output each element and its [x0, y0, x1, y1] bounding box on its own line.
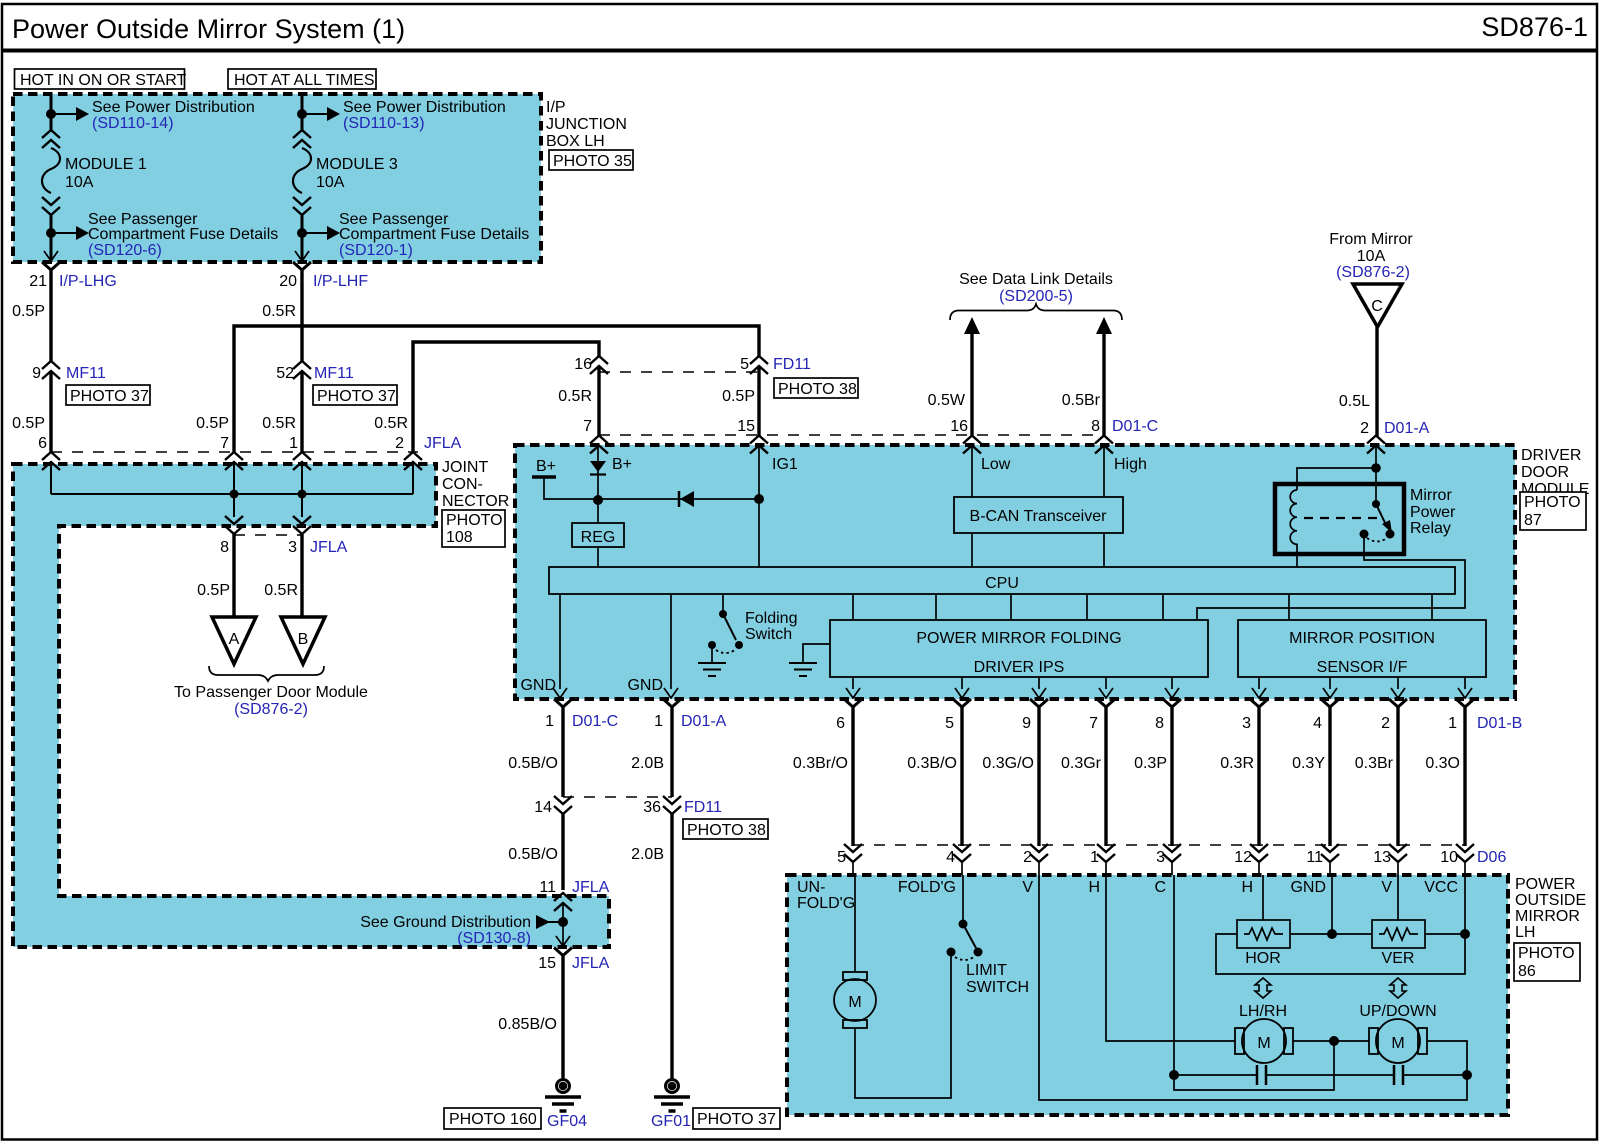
wire VCC sensor — [1464, 875, 1466, 934]
wire B+ node to IG1 node with diode — [598, 498, 759, 500]
arrowheads folding driver outputs — [846, 688, 860, 698]
svg-text:36: 36 — [643, 799, 661, 816]
svg-text:B+: B+ — [536, 458, 556, 475]
label box PHOTO 37 (left) — [66, 385, 150, 405]
text See Power Distribution (SD110-13) — [343, 99, 506, 132]
svg-text:HOT IN ON OR START: HOT IN ON OR START — [20, 72, 186, 89]
connector face line D01-C — [599, 434, 1104, 436]
connector D06 pin 11 — [1306, 844, 1339, 866]
connector D06 pin 4 — [946, 844, 971, 866]
junction node at MODULE 1 top — [46, 109, 56, 119]
connector JFLA pin 8 — [220, 516, 243, 556]
svg-text:D06: D06 — [1477, 849, 1506, 866]
svg-text:1: 1 — [1448, 715, 1457, 732]
svg-text:9: 9 — [1022, 715, 1031, 732]
wire 0.85B/O JFLA 15 to GF04 — [498, 955, 563, 1078]
svg-text:3: 3 — [288, 539, 297, 556]
svg-text:0.3Br: 0.3Br — [1355, 755, 1394, 772]
wire IG1 — [759, 446, 798, 567]
power outside mirror LH block — [787, 875, 1508, 1115]
svg-text:GF01: GF01 — [651, 1113, 691, 1130]
wire JFLA 11 to ground bus — [562, 903, 564, 946]
svg-text:DRIVER: DRIVER — [1521, 447, 1581, 464]
svg-text:NECTOR: NECTOR — [442, 493, 509, 510]
svg-text:13: 13 — [1373, 849, 1391, 866]
wire GND node to HOR and VER — [1290, 933, 1465, 935]
connector D06 pin 3 — [1156, 844, 1181, 866]
text See Passenger Compartment Fuse Details (SD120-1) — [339, 211, 529, 259]
label DRIVER DOOR MODULE — [1521, 447, 1589, 498]
svg-text:0.5B/O: 0.5B/O — [508, 755, 558, 772]
svg-text:JFLA: JFLA — [310, 539, 348, 556]
connector face line FD11 — [599, 371, 759, 373]
wire GND 1 (D01-C) — [520, 594, 567, 698]
svg-text:D01-C: D01-C — [572, 713, 618, 730]
svg-text:VCC: VCC — [1424, 879, 1458, 896]
svg-text:Power: Power — [1410, 504, 1456, 521]
connector D06 pin 2 — [1023, 844, 1048, 866]
svg-text:C: C — [1154, 879, 1166, 896]
connector JFLA pin 1 — [293, 452, 311, 470]
wire 0.5R FD11 16 to D01-C 7 — [558, 366, 599, 436]
connector JFLA pin 7 — [225, 452, 243, 470]
wire 0.3R D01-B 3 to D06 12 — [1220, 707, 1259, 846]
label box PHOTO 38 — [774, 378, 858, 398]
text See Power Distribution (SD110-14) — [92, 99, 255, 132]
svg-text:10: 10 — [1440, 849, 1458, 866]
svg-text:Mirror: Mirror — [1410, 487, 1452, 504]
fold motor M1 — [834, 972, 876, 1028]
folding switch SW1 — [698, 594, 797, 676]
wire 0.3P D01-B 8 to D06 3 — [1134, 707, 1172, 846]
svg-text:2: 2 — [1381, 715, 1390, 732]
svg-text:3: 3 — [1242, 715, 1251, 732]
wire UP/DOWN to V node — [1427, 1041, 1467, 1075]
svg-text:1: 1 — [545, 713, 554, 730]
svg-text:UN-: UN- — [797, 879, 825, 896]
wire unfold to motor — [854, 875, 856, 972]
svg-text:UP/DOWN: UP/DOWN — [1359, 1003, 1436, 1020]
svg-text:(SD200-5): (SD200-5) — [999, 288, 1073, 305]
wire 0.5R JFLA 2 to FD11 16 — [374, 342, 599, 453]
svg-text:PHOTO 160: PHOTO 160 — [449, 1111, 537, 1128]
fuse MODULE 3 10A — [293, 130, 311, 215]
svg-text:7: 7 — [1089, 715, 1098, 732]
svg-text:HOT AT ALL TIMES: HOT AT ALL TIMES — [234, 72, 375, 89]
svg-text:2: 2 — [395, 435, 404, 452]
svg-text:(SD110-14): (SD110-14) — [92, 115, 174, 132]
svg-text:I/P-LHF: I/P-LHF — [313, 273, 368, 290]
svg-text:FOLD'G: FOLD'G — [898, 879, 956, 896]
svg-text:(SD876-2): (SD876-2) — [1336, 264, 1410, 281]
svg-text:B+: B+ — [612, 456, 632, 473]
wire GND 2 (D01-A) — [627, 594, 678, 698]
svg-text:SD876-1: SD876-1 — [1481, 12, 1588, 42]
svg-text:JUNCTION: JUNCTION — [546, 116, 627, 133]
svg-text:H: H — [1088, 879, 1100, 896]
svg-text:HOR: HOR — [1245, 950, 1281, 967]
svg-text:0.3Y: 0.3Y — [1292, 755, 1325, 772]
wire 0.5P JFLA 7 to FD11 5 — [196, 326, 759, 453]
svg-text:FD11: FD11 — [773, 356, 811, 373]
connector I/P-LHF pin 20 — [279, 251, 368, 290]
svg-text:M: M — [1391, 1035, 1404, 1052]
svg-text:0.5Br: 0.5Br — [1062, 392, 1101, 409]
svg-text:D01-A: D01-A — [681, 713, 727, 730]
svg-text:PHOTO: PHOTO — [1524, 494, 1581, 511]
svg-text:(SD130-8): (SD130-8) — [457, 930, 531, 947]
wire 0.5R from I/P-LHF 20 to MF11 52 — [262, 270, 302, 362]
junction node bus-pin3 — [298, 490, 307, 499]
arrowheads sensor interface outputs — [1252, 688, 1266, 698]
junction node at MODULE 1 bottom — [46, 228, 56, 238]
connector face line FD11 lower — [563, 796, 672, 798]
svg-text:PHOTO 37: PHOTO 37 — [697, 1111, 776, 1128]
junction node sensor GND — [1327, 929, 1337, 939]
svg-text:POWER MIRROR FOLDING: POWER MIRROR FOLDING — [916, 630, 1121, 647]
connector FD11 pin 16 — [574, 356, 608, 374]
svg-text:MODULE 1: MODULE 1 — [65, 156, 147, 173]
pin 2 label and connector name D01-A — [1360, 420, 1430, 437]
svg-text:V: V — [1022, 879, 1033, 896]
svg-text:PHOTO 35: PHOTO 35 — [553, 153, 632, 170]
svg-text:(SD876-2): (SD876-2) — [234, 701, 308, 718]
svg-text:10A: 10A — [65, 174, 94, 191]
junction node V / capacitor bus — [1462, 1070, 1472, 1080]
svg-text:PHOTO 37: PHOTO 37 — [317, 388, 396, 405]
wire 2.0B FD11 36 to GF01 — [631, 814, 672, 1078]
wire 0.3Br/O D01-B 6 to D06 5 — [793, 707, 853, 846]
B-CAN Transceiver U1 — [954, 497, 1123, 533]
wire B-CAN to CPU (high) — [1103, 533, 1105, 567]
svg-text:FD11: FD11 — [684, 799, 722, 816]
pin name UN-FOLD'G — [797, 879, 855, 912]
svg-text:GND: GND — [1290, 879, 1326, 896]
svg-text:10A: 10A — [1357, 248, 1386, 265]
svg-text:0.5R: 0.5R — [262, 303, 296, 320]
B+ terminal stub — [532, 458, 598, 499]
svg-text:8: 8 — [1091, 418, 1100, 435]
motor M2 LH/RH — [1235, 1019, 1293, 1063]
label box PHOTO 37 (bottom) — [693, 1108, 780, 1129]
svg-text:OUTSIDE: OUTSIDE — [1515, 892, 1586, 909]
connector D01-B pin 5 exit — [945, 699, 971, 732]
svg-text:7: 7 — [583, 418, 592, 435]
svg-text:2.0B: 2.0B — [631, 846, 664, 863]
svg-text:See Ground Distribution: See Ground Distribution — [360, 914, 531, 931]
connector D01-B pin 2 exit — [1381, 699, 1407, 732]
wire 0.5B/O FD11 14 to JFLA 11 — [508, 814, 563, 890]
svg-text:0.5W: 0.5W — [928, 392, 966, 409]
svg-text:C: C — [1371, 298, 1383, 315]
svg-text:DOOR: DOOR — [1521, 464, 1569, 481]
svg-text:15: 15 — [737, 418, 755, 435]
text To Passenger Door Module (SD876-2) — [174, 684, 368, 718]
brace over data link arrows — [950, 304, 1122, 320]
junction node mirror power feed — [1371, 463, 1381, 473]
svg-text:86: 86 — [1518, 963, 1536, 980]
IPS ground — [789, 644, 830, 676]
svg-text:0.3O: 0.3O — [1425, 755, 1460, 772]
off-page connector B — [281, 617, 325, 664]
wire 0.5R from MF11 52 to JFLA 1 — [262, 371, 302, 453]
svg-text:15: 15 — [538, 955, 556, 972]
svg-text:0.3R: 0.3R — [1220, 755, 1254, 772]
svg-text:2.0B: 2.0B — [631, 755, 664, 772]
capacitor C2 — [1394, 1065, 1403, 1085]
connector D06 pin 13 — [1373, 844, 1407, 866]
svg-text:5: 5 — [945, 715, 954, 732]
label box PHOTO 87 — [1520, 492, 1586, 530]
wire H to LH/RH motor — [1106, 875, 1235, 1041]
connector FD11 pin 36 — [643, 796, 722, 816]
wire 0.3O D01-B 1 to D06 10 — [1425, 707, 1465, 846]
svg-text:FOLD'G: FOLD'G — [797, 895, 855, 912]
svg-text:(SD120-1): (SD120-1) — [339, 242, 413, 259]
connector JFLA pin 2 — [404, 452, 422, 470]
svg-text:Low: Low — [981, 456, 1011, 473]
off-page connector A — [212, 617, 256, 664]
wire V sensor to VER wiper — [1397, 875, 1399, 920]
svg-text:POWER: POWER — [1515, 876, 1575, 893]
capacitor C1 — [1257, 1065, 1266, 1085]
svg-text:9: 9 — [32, 365, 41, 382]
connector MF11 pin 52 — [276, 361, 354, 382]
relay moving contact arm — [1376, 504, 1392, 533]
wire Low to B-CAN — [972, 446, 1011, 497]
connector D01-B pin 4 exit — [1313, 699, 1339, 732]
svg-text:PHOTO 38: PHOTO 38 — [687, 822, 766, 839]
svg-text:MF11: MF11 — [66, 365, 106, 382]
capacitor bus with C1 and C2 — [1174, 1074, 1467, 1076]
connector D06 pin 5 — [837, 844, 862, 866]
wire 0.3B/O D01-B 5 to D06 4 — [907, 707, 962, 846]
svg-text:0.5P: 0.5P — [12, 415, 45, 432]
svg-text:LH: LH — [1515, 924, 1535, 941]
arrow to See Passenger Compartment Fuse Details (left) — [51, 226, 89, 240]
connector D01-B pin 6 exit — [836, 699, 862, 732]
driver door module block — [515, 445, 1515, 699]
label box HOT AT ALL TIMES — [228, 69, 376, 89]
svg-text:JFLA: JFLA — [572, 955, 610, 972]
connector FD11 pin 5 — [740, 356, 811, 374]
junction node ground bus — [558, 917, 568, 927]
wires folding driver to D01-B — [853, 677, 1172, 689]
connector JFLA pin 3 — [288, 516, 348, 556]
wire 2.0B D01-A 1 to FD11 36 — [631, 707, 672, 797]
svg-text:16: 16 — [574, 356, 592, 373]
svg-text:See Power Distribution: See Power Distribution — [343, 99, 506, 116]
svg-text:0.3Br/O: 0.3Br/O — [793, 755, 848, 772]
relay K1 Mirror Power Relay box — [1275, 484, 1404, 554]
svg-text:3: 3 — [1156, 849, 1165, 866]
svg-text:52: 52 — [276, 365, 294, 382]
svg-text:0.85B/O: 0.85B/O — [498, 1016, 557, 1033]
joint connector internal bus — [51, 462, 413, 517]
relay coil — [1290, 490, 1297, 567]
wire fold motor return to limit switch — [855, 956, 951, 1098]
ground GF01 — [651, 1080, 691, 1131]
wire 0.5P from I/P-LHG 21 to MF11 9 — [12, 270, 51, 362]
svg-text:0.5P: 0.5P — [197, 582, 230, 599]
svg-text:See Power Distribution: See Power Distribution — [92, 99, 255, 116]
wires sensor interface to D01-B — [1259, 677, 1465, 689]
label JOINT CONNECTOR — [442, 459, 509, 510]
arrow to See Power Distribution (right) — [302, 107, 340, 121]
connector D01-B pin 3 exit — [1242, 699, 1268, 732]
svg-text:20: 20 — [279, 273, 297, 290]
wire 0.5Br data link high — [1062, 317, 1112, 436]
svg-text:(SD120-6): (SD120-6) — [88, 242, 162, 259]
svg-text:0.5B/O: 0.5B/O — [508, 846, 558, 863]
label box PHOTO 86 — [1514, 943, 1580, 981]
svg-text:JFLA: JFLA — [572, 879, 610, 896]
svg-text:1: 1 — [289, 435, 298, 452]
svg-text:Compartment Fuse Details: Compartment Fuse Details — [88, 226, 278, 243]
svg-text:CON-: CON- — [442, 476, 483, 493]
svg-text:JOINT: JOINT — [442, 459, 488, 476]
svg-text:0.5R: 0.5R — [374, 415, 408, 432]
wire 0.5W data link low — [928, 317, 980, 436]
svg-text:PHOTO 38: PHOTO 38 — [778, 381, 857, 398]
wire 0.3Br D01-B 2 to D06 13 — [1355, 707, 1398, 846]
limit switch SW2 — [947, 875, 1030, 996]
fuse MODULE 1 10A — [42, 130, 60, 215]
text From Mirror 10A (SD876-2) — [1329, 231, 1413, 281]
svg-text:D01-C: D01-C — [1112, 418, 1158, 435]
svg-text:0.5R: 0.5R — [262, 415, 296, 432]
motor M3 UP/DOWN — [1369, 1019, 1427, 1063]
connector D01-B pin 8 exit — [1155, 699, 1181, 732]
svg-text:(SD110-13): (SD110-13) — [343, 115, 425, 132]
svg-text:10A: 10A — [316, 174, 345, 191]
connector JFLA pin 15 — [538, 936, 609, 972]
svg-text:1: 1 — [654, 713, 663, 730]
connector D01-B pin 1 exit — [1448, 699, 1522, 732]
svg-text:0.5R: 0.5R — [558, 388, 592, 405]
svg-text:D01-B: D01-B — [1477, 715, 1522, 732]
svg-text:0.5L: 0.5L — [1339, 393, 1370, 410]
svg-text:0.5R: 0.5R — [264, 582, 298, 599]
svg-text:MODULE 3: MODULE 3 — [316, 156, 398, 173]
wire High to B-CAN — [1104, 446, 1147, 497]
I/P junction box (fuse box) — [13, 94, 541, 262]
svg-text:LIMIT: LIMIT — [966, 962, 1007, 979]
junction node bus-pin8 — [230, 490, 239, 499]
svg-text:VER: VER — [1382, 950, 1415, 967]
relay contact common node — [1372, 500, 1380, 508]
svg-text:M: M — [1257, 1035, 1270, 1052]
text See Data Link Details (SD200-5) — [959, 271, 1113, 305]
svg-text:GND: GND — [520, 677, 556, 694]
label POWER OUTSIDE MIRROR LH — [1515, 876, 1586, 941]
svg-text:MIRROR: MIRROR — [1515, 908, 1580, 925]
svg-text:DRIVER IPS: DRIVER IPS — [974, 659, 1065, 676]
svg-text:0.3G/O: 0.3G/O — [982, 755, 1034, 772]
connector face line D06 — [853, 844, 1465, 846]
connector D01-C pin 15 (module top) — [750, 436, 768, 454]
junction node IG1 rail — [754, 494, 764, 504]
connector D06 pin 10 — [1440, 844, 1506, 866]
svg-text:Switch: Switch — [745, 626, 792, 643]
arrow into ground bus — [536, 915, 563, 929]
label box PHOTO 38 (lower) — [683, 819, 768, 839]
wire 0.3Y D01-B 4 to D06 11 — [1292, 707, 1330, 846]
connector MF11 pin 9 — [32, 361, 106, 382]
svg-text:0.3Gr: 0.3Gr — [1061, 755, 1102, 772]
wire C to motor common — [1174, 1041, 1334, 1090]
brace under A and B — [209, 666, 324, 681]
coupling arrow VER to UP/DOWN — [1390, 978, 1406, 998]
svg-text:GF04: GF04 — [547, 1113, 587, 1130]
connector D06 pin 1 — [1090, 844, 1115, 866]
svg-text:B: B — [298, 631, 309, 648]
pin 8 label and connector name D01-C — [1091, 418, 1158, 435]
svg-text:Relay: Relay — [1410, 520, 1451, 537]
arrow to See Power Distribution (left) — [51, 107, 89, 121]
title separator line — [2, 49, 1598, 53]
svg-text:1: 1 — [1090, 849, 1099, 866]
svg-text:0.3B/O: 0.3B/O — [907, 755, 957, 772]
wire C to capacitor bus — [1173, 875, 1175, 1075]
svg-text:M: M — [848, 994, 861, 1011]
connector D01-B pin 9 exit — [1022, 699, 1048, 732]
svg-text:21: 21 — [29, 273, 47, 290]
svg-text:REG: REG — [581, 529, 616, 546]
svg-text:MF11: MF11 — [314, 365, 354, 382]
svg-text:2: 2 — [1023, 849, 1032, 866]
connector D01-A pin 2 (module top) — [1367, 436, 1385, 454]
connector D01-B pin 7 exit — [1089, 699, 1115, 732]
svg-text:See Data Link Details: See Data Link Details — [959, 271, 1113, 288]
arrow to See Passenger Compartment Fuse Details (right) — [302, 226, 340, 240]
connector D01-C pin 16 (module top) — [963, 436, 981, 454]
connector I/P-LHG pin 21 — [29, 251, 117, 290]
off-page connector C from mirror fuse — [1353, 284, 1402, 327]
junction node at MODULE 3 top — [297, 109, 307, 119]
resistor HOR (position sensor) — [1237, 920, 1290, 967]
diode D2 (IG1 to B+ rail) — [679, 491, 694, 507]
joint connector JFLA block (bracket shape) — [13, 464, 609, 947]
label Mirror Power Relay — [1410, 487, 1456, 537]
svg-text:CPU: CPU — [985, 575, 1019, 592]
mirror position sensor I/F box — [1238, 620, 1486, 677]
resistor VER (position sensor) — [1372, 920, 1425, 967]
label I/P JUNCTION BOX LH — [546, 99, 627, 150]
wire 0.5L from C to D01-A 2 — [1339, 327, 1377, 436]
wire LH/RH to common node — [1293, 1040, 1369, 1042]
junction node sensor VCC — [1460, 929, 1470, 939]
wire relay output to boxes — [1197, 534, 1465, 620]
svg-text:0.3P: 0.3P — [1134, 755, 1167, 772]
svg-text:5: 5 — [740, 356, 749, 373]
label box PHOTO 37 (mid) — [313, 385, 397, 405]
svg-text:IG1: IG1 — [772, 456, 798, 473]
text See Ground Distribution (SD130-8) — [360, 914, 531, 947]
label box PHOTO 108 — [442, 510, 505, 547]
relay throw contacts — [1360, 530, 1369, 539]
svg-text:H: H — [1241, 879, 1253, 896]
svg-text:D01-A: D01-A — [1384, 420, 1430, 437]
svg-text:JFLA: JFLA — [424, 435, 462, 452]
svg-text:4: 4 — [946, 849, 955, 866]
wire 0.3Gr D01-B 7 to D06 1 — [1061, 707, 1106, 846]
svg-text:0.5P: 0.5P — [722, 388, 755, 405]
svg-text:Compartment Fuse Details: Compartment Fuse Details — [339, 226, 529, 243]
svg-text:SENSOR I/F: SENSOR I/F — [1317, 659, 1408, 676]
connector face line JFLA bottom — [234, 534, 302, 536]
svg-text:0.5P: 0.5P — [12, 303, 45, 320]
